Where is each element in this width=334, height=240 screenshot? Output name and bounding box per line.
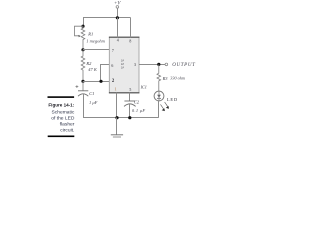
wire pin 6 jog bbox=[101, 65, 110, 82]
wire C2 bottom to rail bbox=[129, 104, 131, 118]
resistor R1 (rheostat) zigzag bbox=[81, 26, 85, 50]
svg-text:circuit.: circuit. bbox=[60, 128, 74, 134]
svg-text:C1: C1 bbox=[89, 91, 94, 96]
wire to pin 7 bbox=[83, 49, 109, 51]
svg-text:C2: C2 bbox=[134, 99, 140, 104]
svg-text:of the LED: of the LED bbox=[51, 116, 75, 122]
pin 1 stub down to rail bbox=[116, 93, 118, 118]
svg-text:R2: R2 bbox=[85, 61, 92, 66]
caption figure text bbox=[48, 103, 75, 134]
resistor R2 zigzag bbox=[81, 50, 85, 82]
svg-text:flasher: flasher bbox=[60, 122, 75, 128]
svg-text:8: 8 bbox=[129, 40, 131, 44]
node output junction bbox=[157, 63, 160, 66]
caption bottom rule bbox=[48, 136, 75, 138]
capacitor C1 lead top bbox=[82, 81, 84, 91]
ground bars bbox=[111, 134, 123, 136]
node junction dot at +V rail bbox=[116, 16, 119, 19]
node +V terminal bbox=[114, 2, 121, 19]
node C2 rail junction bbox=[128, 116, 131, 119]
node R2/C1/pin2 junction bbox=[81, 80, 84, 83]
svg-text:4: 4 bbox=[117, 39, 119, 43]
LED D1 circle bbox=[154, 91, 164, 101]
plus sign of C1 bbox=[76, 85, 79, 88]
node OUTPUT terminal bbox=[165, 63, 168, 66]
pin 8 stub bbox=[130, 18, 132, 38]
svg-text:OUTPUT: OUTPUT bbox=[172, 63, 196, 68]
svg-text:47 K: 47 K bbox=[88, 67, 98, 72]
capacitor C1 plates bbox=[78, 90, 88, 92]
svg-text:IC1: IC1 bbox=[140, 84, 147, 89]
wire +V top rail bbox=[83, 17, 131, 19]
wire left drop to R1 bbox=[83, 17, 85, 26]
wire LED bottom to rail bbox=[158, 101, 160, 118]
svg-text:Schematic: Schematic bbox=[52, 110, 75, 116]
capacitor C2 plates bbox=[124, 100, 135, 102]
svg-text:5: 5 bbox=[129, 88, 131, 92]
LED emission arrow 1 bbox=[161, 104, 165, 111]
svg-text:3: 3 bbox=[134, 63, 136, 67]
svg-text:555: 555 bbox=[120, 59, 125, 70]
pin 5 stub bbox=[129, 93, 131, 101]
svg-text:0.1 μF: 0.1 μF bbox=[132, 108, 146, 113]
svg-text:R3: R3 bbox=[162, 76, 169, 81]
wiper arrowhead of R1 bbox=[78, 35, 80, 37]
node R1 top junction bbox=[81, 25, 84, 28]
svg-text:6: 6 bbox=[111, 64, 113, 68]
caption top rule bbox=[48, 96, 75, 98]
svg-text:1 μF: 1 μF bbox=[89, 100, 98, 105]
ground stub bbox=[116, 118, 118, 135]
svg-text:1 megohm: 1 megohm bbox=[86, 39, 105, 44]
node pin6 jog junction bbox=[99, 80, 102, 83]
pin 4 stub bbox=[117, 18, 119, 38]
resistor R3 zigzag bbox=[157, 64, 161, 91]
node pin1 rail junction bbox=[115, 116, 118, 119]
IC U1 555 body bbox=[109, 37, 139, 93]
wire C1 bottom to ground rail bbox=[84, 94, 159, 118]
svg-text:Figure 14-1:: Figure 14-1: bbox=[48, 103, 74, 108]
LED emission arrow 2 bbox=[165, 102, 169, 109]
LED symbol triangle and bar bbox=[157, 95, 161, 98]
svg-text:LED: LED bbox=[167, 97, 178, 102]
pin 3 wire to output bbox=[139, 64, 165, 66]
wire R1 wiper loop bbox=[75, 26, 84, 36]
svg-text:7: 7 bbox=[112, 49, 114, 53]
svg-text:330 ohm: 330 ohm bbox=[170, 76, 185, 81]
svg-text:R1: R1 bbox=[87, 31, 93, 36]
wire to pin 2 bbox=[83, 81, 109, 83]
node R1/R2 junction bbox=[81, 48, 84, 51]
